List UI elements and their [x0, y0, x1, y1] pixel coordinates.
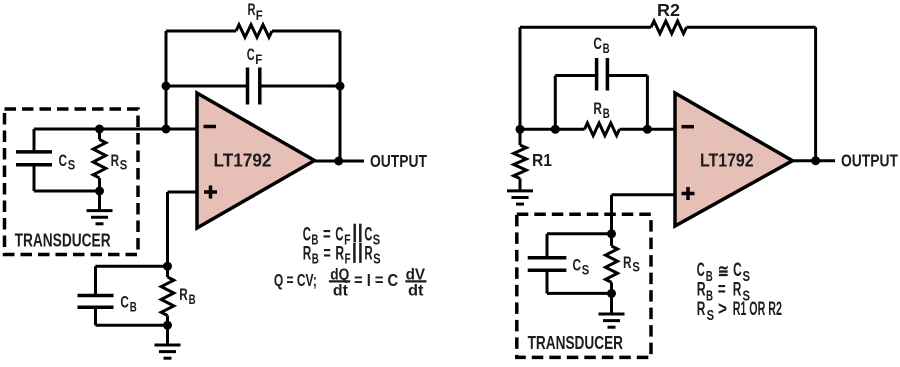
node transducer bottom junction	[95, 187, 104, 196]
svg-text:B: B	[603, 106, 610, 121]
svg-text:S: S	[707, 307, 715, 324]
svg-text:= I = C: = I = C	[354, 270, 398, 290]
ground transducer left	[87, 191, 113, 224]
node R1 junction	[516, 125, 525, 134]
label CS	[59, 151, 76, 173]
label TRANSDUCER right	[528, 333, 623, 353]
svg-text:LT1792: LT1792	[214, 150, 272, 170]
label OUTPUT left	[370, 151, 427, 171]
wire noninverting input right	[612, 195, 676, 234]
svg-text:S: S	[120, 158, 128, 173]
svg-text:C: C	[120, 293, 128, 312]
resistor RS	[93, 129, 106, 191]
svg-text:R: R	[593, 99, 602, 118]
resistor RB right	[585, 123, 620, 136]
equation CB approx CS	[697, 260, 750, 285]
svg-text:R: R	[364, 244, 372, 265]
svg-text:S: S	[373, 250, 381, 267]
wire feedback top	[166, 30, 340, 33]
capacitor CB right branch	[555, 58, 647, 129]
ground RB	[155, 325, 181, 358]
wire output left	[315, 160, 365, 163]
svg-text:C: C	[364, 225, 372, 246]
svg-text:R: R	[248, 0, 256, 19]
transducer box right (dashed)	[517, 214, 651, 357]
wire CF right	[260, 85, 340, 88]
svg-text:B: B	[311, 231, 318, 248]
wire transducer top right	[547, 232, 612, 235]
svg-text:C: C	[335, 225, 343, 246]
svg-text:R: R	[623, 253, 632, 272]
label CB right	[593, 34, 609, 56]
svg-text:B: B	[706, 287, 713, 304]
svg-text:R: R	[697, 299, 706, 320]
node transducer top junction	[95, 125, 104, 134]
label RS right	[623, 253, 640, 275]
resistor RB left	[161, 266, 174, 325]
equation RS > R1 OR R2	[697, 299, 782, 324]
equation RB = RF || RS	[303, 243, 381, 267]
node CB left junction right-ckt	[551, 125, 560, 134]
transducer box (dashed)	[5, 109, 139, 255]
svg-text:F: F	[255, 52, 262, 67]
label CB left	[120, 293, 137, 315]
svg-text:C: C	[59, 151, 68, 170]
label OUTPUT right	[841, 151, 898, 171]
svg-text:S: S	[632, 260, 640, 275]
wire feedback right vertical	[339, 31, 342, 161]
node CF left junction	[162, 82, 171, 91]
svg-text:C: C	[697, 260, 705, 281]
svg-text:dt: dt	[333, 282, 348, 299]
node transducer bottom junction right	[607, 289, 616, 298]
svg-text:LT1792: LT1792	[700, 150, 754, 170]
node output junction left	[334, 157, 343, 166]
label TRANSDUCER left	[15, 230, 111, 250]
node transducer top junction right	[607, 229, 616, 238]
label R1	[532, 150, 552, 170]
wire noninverting input	[168, 192, 198, 266]
svg-text:B: B	[603, 41, 610, 56]
label R2	[657, 0, 680, 20]
wire CF left	[166, 85, 248, 88]
wire feedback left vertical right-ckt	[519, 27, 522, 129]
svg-text:S: S	[373, 231, 380, 248]
wire CB bottom	[96, 324, 168, 327]
label LT1792 left	[214, 150, 272, 170]
svg-text:B: B	[312, 250, 319, 267]
ground transducer right	[599, 293, 625, 327]
ground R1	[507, 179, 533, 205]
svg-text:C: C	[247, 45, 255, 64]
wire feedback top right	[520, 26, 816, 29]
wire feedback right vertical right-ckt	[814, 27, 817, 160]
wire transducer bottom	[34, 190, 100, 193]
node inverting junction	[162, 125, 171, 134]
svg-text:OUTPUT: OUTPUT	[841, 151, 898, 171]
svg-text:R: R	[179, 285, 188, 304]
svg-text:S: S	[68, 157, 76, 172]
label RF	[248, 0, 263, 23]
svg-text:F: F	[345, 250, 351, 267]
capacitor CB left	[78, 266, 114, 325]
svg-text:C: C	[573, 256, 582, 275]
node CB right junction right-ckt	[643, 125, 652, 134]
svg-text:R: R	[303, 244, 312, 265]
resistor RF	[236, 25, 272, 38]
equation CB = CF || CS	[303, 224, 380, 249]
svg-text:S: S	[743, 268, 751, 285]
label LT1792 right	[700, 150, 754, 170]
svg-text:TRANSDUCER: TRANSDUCER	[528, 333, 623, 353]
node CF right junction	[336, 82, 345, 91]
svg-text:=: =	[718, 280, 726, 301]
label CS right	[573, 256, 590, 278]
svg-text:TRANSDUCER: TRANSDUCER	[15, 230, 111, 250]
node RB bottom junction	[163, 321, 172, 330]
node RB top junction	[163, 262, 172, 271]
svg-text:R2: R2	[657, 0, 680, 20]
svg-text:OUTPUT: OUTPUT	[370, 151, 427, 171]
label CF	[247, 45, 263, 67]
svg-text:R: R	[697, 280, 706, 301]
capacitor CS	[16, 129, 52, 191]
svg-text:>: >	[718, 299, 727, 320]
svg-text:B: B	[706, 268, 713, 285]
node output junction right	[811, 156, 820, 165]
label RS	[111, 151, 128, 173]
svg-text:B: B	[130, 300, 137, 315]
svg-text:R1: R1	[532, 150, 552, 170]
resistor R2	[651, 21, 687, 34]
wire feedback left vertical	[165, 31, 168, 129]
svg-text:R: R	[111, 151, 120, 170]
label RB right	[593, 99, 610, 121]
svg-text:C: C	[733, 260, 742, 281]
svg-text:R: R	[335, 244, 344, 265]
capacitor CS right	[528, 234, 567, 294]
svg-text:=: =	[323, 225, 331, 246]
wire inverting input right	[520, 128, 675, 131]
wire inverting input	[34, 128, 197, 131]
op-amp U2 LT1792	[675, 93, 793, 226]
resistor RS right	[606, 234, 618, 294]
label RB left	[179, 285, 196, 307]
wire CB top	[96, 265, 168, 268]
svg-text:B: B	[189, 292, 196, 307]
svg-text:F: F	[256, 8, 263, 23]
svg-text:=: =	[323, 244, 330, 265]
svg-text:R1 OR R2: R1 OR R2	[733, 299, 782, 320]
svg-text:S: S	[582, 263, 590, 278]
svg-text:C: C	[593, 34, 602, 53]
capacitor CF	[248, 68, 260, 105]
resistor R1	[514, 129, 527, 191]
svg-text:C: C	[303, 225, 311, 246]
svg-text:F: F	[344, 231, 351, 248]
op-amp U1 LT1792	[197, 93, 315, 228]
svg-text:R: R	[733, 280, 742, 301]
equation RB = RS	[697, 280, 750, 305]
equation Q = CV; dQ/dt = I = C dV/dt	[274, 266, 427, 299]
wire transducer bottom right	[547, 292, 612, 295]
svg-text:dt: dt	[408, 282, 424, 299]
wire output right	[793, 159, 836, 162]
svg-text:Q = CV;: Q = CV;	[274, 270, 317, 290]
